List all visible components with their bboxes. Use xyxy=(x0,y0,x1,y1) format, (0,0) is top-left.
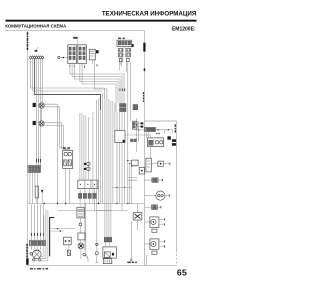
svg-text:КОММУТАЦИОННАЯ СХЕМА: КОММУТАЦИОННАЯ СХЕМА xyxy=(5,24,67,29)
connector row drops xyxy=(79,198,81,207)
CDI label marks xyxy=(118,38,121,40)
switch label xyxy=(73,37,77,39)
left lower stack: plug box xyxy=(77,207,84,218)
oil switch xyxy=(83,204,88,263)
frame top rule xyxy=(6,30,145,32)
switch pin arrows xyxy=(69,65,98,69)
wire to bottom label xyxy=(130,221,132,259)
wire pilot down xyxy=(91,60,93,65)
fuse bottom symbols xyxy=(119,58,129,61)
diode arrow xyxy=(41,190,44,204)
frame bottom xyxy=(28,265,177,267)
CDI block xyxy=(117,40,132,46)
coil box xyxy=(78,233,85,240)
main bus xyxy=(28,203,145,205)
left wire run c7 xyxy=(42,59,44,101)
small box K xyxy=(139,167,144,174)
bundle wires right xyxy=(113,101,115,204)
center bundle wire 2 xyxy=(100,96,102,204)
left border vertical label top xyxy=(27,32,29,50)
magneto xyxy=(30,250,41,261)
right short links xyxy=(128,161,139,181)
terminal box bottom xyxy=(103,259,112,264)
link line y187 xyxy=(112,186,132,188)
relay B side marks xyxy=(131,139,134,142)
left wire run c3 (heavy) xyxy=(35,59,101,110)
connector 6P label xyxy=(35,50,38,52)
engine switch xyxy=(95,204,98,263)
wire run sw2 pin1 xyxy=(80,64,118,104)
frame right border lower xyxy=(176,121,178,250)
pilot box dark mark xyxy=(96,50,99,53)
G feeders xyxy=(146,132,148,138)
heavy wire xyxy=(50,218,55,257)
connector pin dashes xyxy=(37,159,41,163)
left border vertical label bottom xyxy=(26,244,28,258)
fold line vertical label xyxy=(175,124,176,132)
sender right pins xyxy=(137,124,144,127)
lamp feeder verticals xyxy=(57,104,59,203)
fuse row 1 xyxy=(118,48,130,52)
conn A pins xyxy=(120,89,125,92)
right section: feed dot xyxy=(138,129,140,131)
strip to magneto wires xyxy=(31,246,40,250)
wire run sw1 pin1 xyxy=(70,64,124,104)
mid-right vertical with dots xyxy=(127,161,129,204)
switch assembly box xyxy=(78,180,98,189)
bottom outside caption xyxy=(30,268,48,270)
pilot box xyxy=(89,49,95,60)
left wire run c6 xyxy=(40,59,42,166)
lamp link wire xyxy=(41,108,43,121)
tiny dark box R xyxy=(167,136,170,139)
block drop wires xyxy=(29,172,31,203)
box J xyxy=(132,160,139,165)
right border vertical label xyxy=(143,92,144,102)
box H2 xyxy=(151,161,170,166)
ignition switch box 1 xyxy=(68,45,77,64)
magneto connector strip xyxy=(30,240,46,245)
connector row links xyxy=(80,189,94,194)
right border tick xyxy=(144,68,146,71)
spark unit xyxy=(78,243,84,249)
extra bundle wires xyxy=(93,100,97,204)
lower connector pin dashes xyxy=(31,233,43,236)
relay B wires xyxy=(117,112,125,131)
4P connector row xyxy=(78,193,96,198)
fuel unit vertical xyxy=(136,118,138,152)
frame left border xyxy=(27,31,29,266)
CDI dark side mark xyxy=(132,44,134,47)
left wire run c4 xyxy=(36,59,38,166)
meter label xyxy=(63,147,65,149)
conn pair A xyxy=(120,104,127,112)
meter unit box xyxy=(63,150,73,168)
single connector circle xyxy=(58,56,68,58)
lamp L1 xyxy=(33,101,45,108)
conn pair right xyxy=(133,105,138,110)
svg-text:65: 65 xyxy=(177,267,187,277)
bus junction dots xyxy=(44,203,45,204)
center bundle wire 1 xyxy=(98,99,100,204)
small terminal circle xyxy=(79,223,82,226)
hatched plug row1 xyxy=(145,178,163,182)
svg-text:ТЕХНИЧЕСКАЯ ИНФОРМАЦИЯ: ТЕХНИЧЕСКАЯ ИНФОРМАЦИЯ xyxy=(102,10,197,17)
alternator circle xyxy=(145,191,170,200)
resistor xyxy=(35,186,38,198)
header rule (thick) xyxy=(6,20,197,22)
indicator circles pair xyxy=(84,162,90,170)
right border thick mark xyxy=(143,43,145,52)
relay box B xyxy=(115,131,125,143)
lower-left 5 wires xyxy=(31,205,43,241)
wire run sw1 pin3 xyxy=(74,64,120,104)
CDI lower stubs xyxy=(119,47,126,72)
bottom inside label xyxy=(127,262,136,264)
lamp L1 wires xyxy=(44,104,59,107)
left wire run c5 xyxy=(38,59,40,166)
frame attach blob xyxy=(172,139,176,145)
relay X box xyxy=(133,213,142,220)
battery feed wires xyxy=(105,96,111,237)
E arrows xyxy=(156,133,158,135)
fuel sender box xyxy=(133,121,137,129)
frame right border upper xyxy=(144,31,146,266)
CDI drop wires xyxy=(121,62,128,65)
left 8P block xyxy=(28,165,40,172)
relay area lines xyxy=(51,229,76,231)
meter drop wires xyxy=(66,168,70,203)
E output run xyxy=(155,130,172,133)
hatched plug row2 xyxy=(145,205,161,210)
connector 6P circles xyxy=(30,55,44,59)
junction dot A xyxy=(63,57,65,59)
wire run sw2 pin2 xyxy=(82,64,116,112)
box H xyxy=(146,158,151,172)
svg-text:EM1200E:: EM1200E: xyxy=(172,26,196,32)
lamp L2 xyxy=(33,121,45,126)
lamp L2 wires xyxy=(44,123,63,126)
relay box xyxy=(64,237,72,245)
G drop xyxy=(150,147,152,159)
wire stub sw2 pin3 xyxy=(84,64,86,66)
box G xyxy=(147,138,163,147)
left wire run c1 xyxy=(31,59,105,99)
small circle near battery xyxy=(96,243,98,245)
left wire run c2 xyxy=(33,59,103,91)
frame step xyxy=(145,120,177,122)
secondary bus xyxy=(58,210,128,212)
breaker sub box xyxy=(67,250,70,255)
battery connector xyxy=(104,237,111,242)
relay B feed wire xyxy=(125,135,151,138)
ignition switch box 2 xyxy=(78,45,87,64)
switch box feeders xyxy=(80,113,89,180)
bottom-left thick mark xyxy=(26,258,28,265)
magneto return wires xyxy=(41,215,44,256)
wire run sw1 pin2 xyxy=(72,64,122,104)
battery box xyxy=(103,247,116,258)
socket unit 1 xyxy=(145,217,165,232)
center bundle wire 3 xyxy=(102,94,104,204)
fuse row 2 xyxy=(118,53,130,57)
connector E xyxy=(145,127,156,131)
socket unit 2 xyxy=(145,239,165,254)
bottom right vertical xyxy=(145,255,147,266)
